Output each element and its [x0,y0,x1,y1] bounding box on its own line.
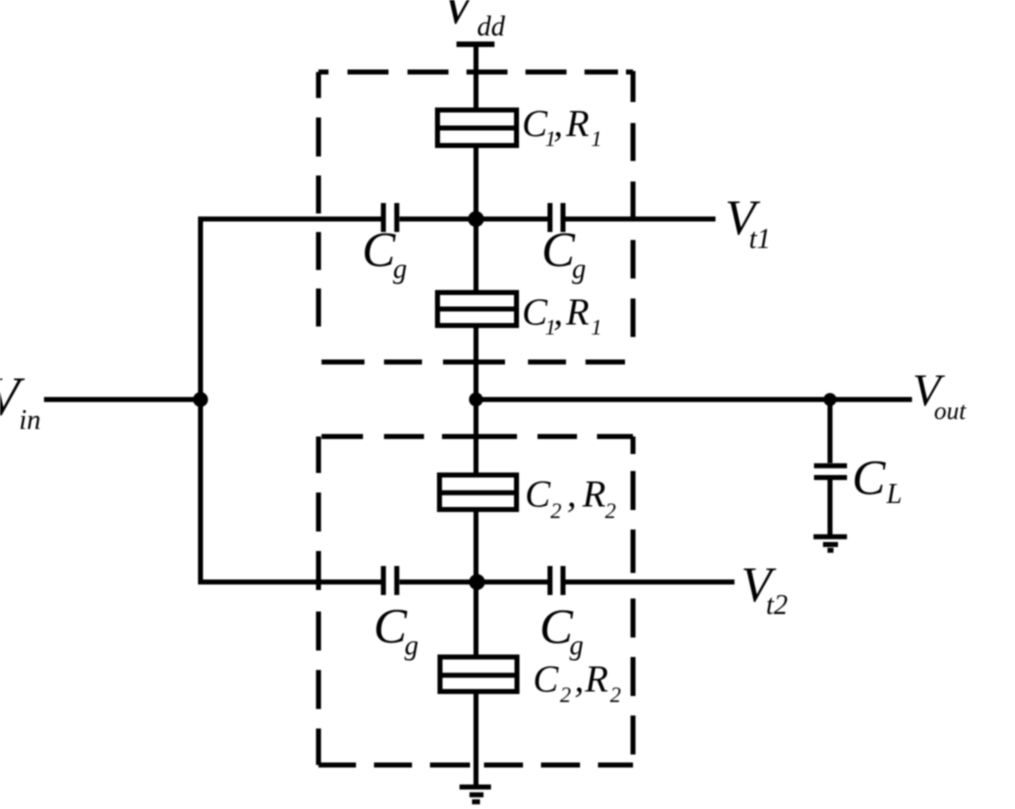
svg-text:2: 2 [605,498,616,523]
svg-text:t1: t1 [749,224,771,255]
svg-text:L: L [886,479,903,510]
svg-text:g: g [405,631,419,662]
svg-text:g: g [570,631,584,662]
svg-text:C: C [362,221,396,277]
svg-text:g: g [572,254,586,285]
svg-text:C: C [852,449,886,505]
svg-text:C: C [542,221,576,277]
svg-text:1: 1 [545,126,556,151]
svg-text:C: C [540,598,574,654]
svg-text:1: 1 [591,126,602,151]
svg-text:1: 1 [545,315,556,340]
svg-text:2: 2 [560,682,571,707]
svg-text:g: g [393,254,407,285]
svg-text:,: , [575,659,585,701]
svg-text:C: C [525,474,551,516]
svg-text:2: 2 [610,682,621,707]
svg-text:R: R [565,103,589,145]
svg-text:,: , [567,474,577,516]
svg-text:in: in [19,405,41,436]
svg-text:dd: dd [477,12,506,43]
svg-text:R: R [584,659,608,701]
svg-text:2: 2 [551,498,562,523]
svg-text:C: C [374,598,408,654]
svg-text:R: R [565,292,589,334]
svg-text:1: 1 [591,315,602,340]
svg-text:t2: t2 [766,590,788,621]
svg-text:C: C [533,659,559,701]
svg-text:R: R [582,474,606,516]
svg-text:out: out [934,398,967,425]
